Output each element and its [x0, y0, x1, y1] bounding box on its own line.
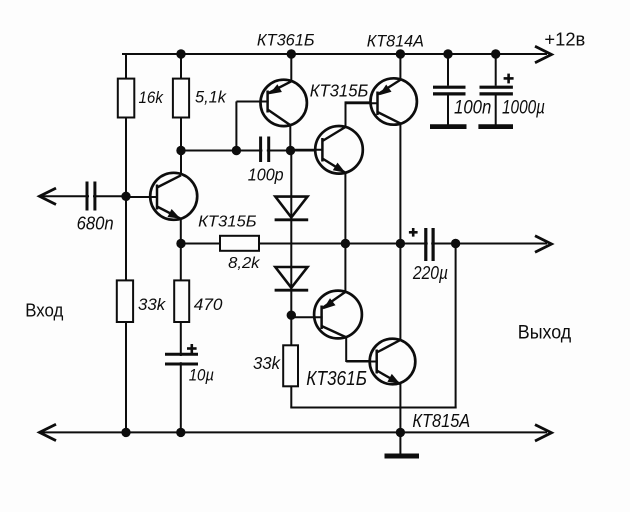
- wire bottom common rail: [42, 431, 547, 433]
- wire bootstrap bottom horizontal: [290, 407, 456, 409]
- svg-text:8,2k: 8,2k: [228, 255, 260, 272]
- svg-text:10µ: 10µ: [189, 365, 215, 384]
- wire node-A horizontal (collector Q1 to base Q3): [181, 150, 317, 152]
- svg-text:КТ814А: КТ814А: [367, 31, 424, 50]
- svg-text:16k: 16k: [139, 88, 164, 107]
- resistor 8.2k: [220, 236, 259, 251]
- wire Q4 emitter from rail: [399, 53, 401, 80]
- wire Q3 collector up-leg: [345, 101, 347, 127]
- wire input signal horizontal: [42, 195, 126, 197]
- capacitor 100n: [433, 86, 466, 89]
- resistor 16k: [118, 79, 135, 118]
- wire Q5 collector to Q6 base: [346, 360, 371, 362]
- wire Q5 collector down-leg: [345, 338, 347, 363]
- capacitor 220u: [428, 237, 432, 249]
- resistor 33k (bottom): [283, 345, 298, 386]
- wire 5.1k / Q1 collector vertical: [180, 53, 182, 176]
- wire mid output rail: [181, 243, 547, 245]
- svg-text:Выход: Выход: [518, 321, 572, 343]
- diode VD2: [275, 267, 307, 288]
- svg-text:470: 470: [194, 295, 223, 314]
- svg-text:100n: 100n: [454, 96, 491, 118]
- wire 100n cap bottom leg: [447, 95, 449, 125]
- transistor Q5 KT361B (PNP): [291, 291, 362, 339]
- output terminal arrow: [535, 236, 552, 252]
- svg-text:1000µ: 1000µ: [502, 96, 545, 118]
- node dot A collector Q1: [176, 146, 185, 155]
- wire left vertical bias/input column: [125, 53, 127, 433]
- node dot Q3 emitter / output rail: [341, 239, 350, 248]
- wire Q5 emitter vertical: [344, 244, 346, 293]
- node dot top rail / 5.1k: [176, 49, 185, 58]
- svg-text:КТ361Б: КТ361Б: [306, 368, 367, 390]
- wire Q2 emitter from rail: [290, 53, 292, 82]
- node dot Q1 emitter / 8.2k: [176, 239, 185, 248]
- wire Q2 base down-leg: [235, 101, 237, 150]
- resistor 470: [174, 280, 189, 322]
- diode VD1: [275, 197, 307, 218]
- node dot top rail / Q2 emitter: [287, 49, 296, 58]
- wire 100n cap top leg: [447, 53, 449, 86]
- input terminal arrow: [40, 188, 57, 204]
- node dot bottom rail / Q6 emitter: [396, 428, 405, 437]
- svg-text:+12в: +12в: [544, 29, 585, 49]
- wire Q6 collector vertical: [399, 244, 401, 341]
- svg-text:КТ361Б: КТ361Б: [257, 30, 315, 49]
- wire top +12V rail: [122, 53, 547, 55]
- wire Q3 collector to Q4 base: [346, 101, 373, 103]
- node dot input base divider: [121, 192, 130, 201]
- node dot Q2 collector / diode chain: [286, 146, 295, 155]
- wire diode chain vertical: [290, 151, 292, 408]
- svg-text:КТ315Б: КТ315Б: [310, 81, 369, 101]
- svg-text:220µ: 220µ: [412, 263, 448, 283]
- svg-text:5,1k: 5,1k: [195, 89, 227, 107]
- bottom-right common terminal arrow: [535, 425, 552, 441]
- resistor 33k (left): [117, 280, 133, 322]
- svg-text:680n: 680n: [77, 213, 114, 234]
- svg-text:Вход: Вход: [25, 301, 63, 322]
- node dot Q4-Q6 collectors / output rail: [396, 239, 405, 248]
- bottom-left common terminal arrow: [40, 424, 57, 440]
- node dot Q2 base: [232, 146, 241, 155]
- node dot bottom rail / left column: [121, 428, 130, 437]
- capacitor 1000u: [480, 86, 513, 89]
- svg-text:100p: 100p: [248, 165, 284, 185]
- wire bootstrap vertical to output node: [455, 244, 457, 409]
- transistor Q1 KT315B (input NPN): [126, 173, 197, 220]
- svg-text:33k: 33k: [253, 353, 281, 373]
- capacitor 100p: [262, 144, 266, 156]
- node dot top rail / Q4 emitter: [396, 49, 405, 58]
- node dot diode chain / Q5 base / 33k: [287, 311, 296, 320]
- wire 1000u cap bottom leg: [495, 95, 497, 125]
- wire Q2 collector to node: [289, 124, 291, 151]
- svg-text:33k: 33k: [138, 295, 166, 314]
- wire Q6 emitter vertical: [399, 384, 401, 433]
- capacitor 10u: [174, 356, 187, 362]
- transistor Q3 KT315B (driver NPN): [290, 126, 363, 174]
- transistor Q2 KT361B (PNP): [236, 80, 307, 126]
- resistor 5.1k: [173, 79, 189, 118]
- wire 1000u cap top leg: [495, 53, 497, 86]
- transistor Q6 KT815A (output NPN): [346, 339, 415, 385]
- node dot output rail / bootstrap: [451, 239, 460, 248]
- node dot bottom rail / 10u: [176, 428, 185, 437]
- svg-text:КТ315Б: КТ315Б: [198, 214, 257, 231]
- wire Q3 emitter vertical: [344, 173, 346, 244]
- node dot top rail / 1000u: [491, 49, 500, 58]
- svg-text:КТ815А: КТ815А: [412, 410, 470, 431]
- transistor Q4 KT814A (PNP): [346, 78, 417, 124]
- +12V terminal arrow: [535, 46, 552, 62]
- wire Q1 emitter / 470 / 10u vertical: [180, 218, 182, 433]
- node dot top rail / 100n: [443, 49, 452, 58]
- capacitor 680n: [89, 190, 93, 202]
- wire Q4 collector vertical: [399, 124, 401, 244]
- ground: [399, 432, 401, 455]
